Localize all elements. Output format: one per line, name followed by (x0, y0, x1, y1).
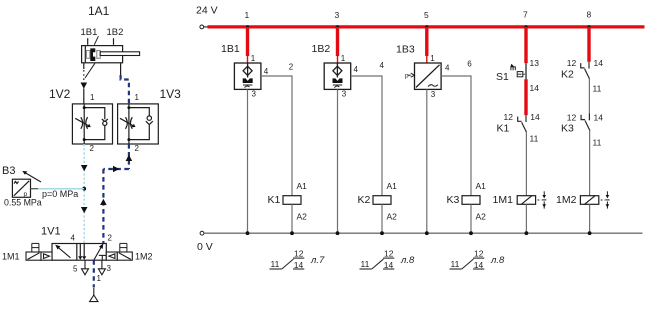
svg-text:14: 14 (384, 260, 394, 270)
red drop to 1B3 (425, 27, 428, 56)
svg-text:11: 11 (451, 259, 460, 269)
relay coil K1 (283, 196, 301, 205)
valve 1V1 body (52, 244, 106, 261)
svg-text:14: 14 (530, 112, 540, 122)
cross reference contact K2 (line 8) (360, 258, 395, 269)
cylinder 1A1 piston cushion pads (86, 51, 89, 59)
svg-text:л.8: л.8 (490, 255, 505, 266)
svg-text:3: 3 (335, 10, 340, 20)
svg-text:11: 11 (593, 84, 602, 94)
wire K3 coil to 0V (470, 204, 472, 233)
svg-text:3: 3 (252, 90, 257, 99)
sensor 1B1 box (234, 63, 261, 89)
flow arrow up near 1V3 (126, 155, 133, 161)
1B3 switch wave (428, 85, 438, 87)
pilot 1M1 box (41, 252, 52, 260)
svg-text:1M2: 1M2 (556, 194, 577, 206)
solenoid 1M1 box (26, 252, 41, 260)
svg-text:3: 3 (431, 90, 436, 99)
pressure switch 1B3 box (415, 63, 442, 89)
svg-text:3: 3 (342, 90, 347, 99)
1B1 reed symbol (243, 78, 253, 83)
svg-text:11: 11 (530, 134, 539, 144)
sensor tick 1B2 (113, 38, 115, 45)
relay coil K2 (373, 196, 391, 205)
red segment S1 to K1 contact (524, 79, 527, 115)
wire 1B2 pin4 to K2 coil (351, 76, 382, 196)
svg-text:1V1: 1V1 (41, 226, 61, 238)
1V2 junction dots (83, 106, 86, 109)
svg-text:л.8: л.8 (400, 255, 415, 266)
cross reference contact K3 (line 8) (450, 258, 485, 269)
svg-text:14: 14 (530, 83, 540, 93)
svg-text:1: 1 (97, 274, 102, 283)
svg-text:A2: A2 (476, 212, 487, 222)
sensor reference diagonal line (94, 36, 98, 45)
flow arrow down on cyan line (upper) (81, 165, 88, 171)
flow control valve 1V2 (72, 104, 112, 144)
svg-text:A1: A1 (387, 181, 398, 191)
1M1 link dashes (538, 199, 542, 201)
1V2 throttle arrowhead (87, 124, 91, 127)
flow control valve 1V3 (118, 104, 159, 144)
svg-text:л.7: л.7 (310, 255, 325, 266)
svg-text:1: 1 (251, 54, 256, 63)
svg-text:8: 8 (587, 10, 592, 20)
svg-text:12: 12 (567, 58, 577, 68)
column 8: red drop to K2 contact (587, 27, 590, 62)
svg-text:A1: A1 (297, 181, 308, 191)
svg-text:12: 12 (384, 249, 394, 259)
B3 adjustment arrow (25, 173, 41, 182)
svg-text:2: 2 (289, 63, 294, 72)
svg-text:p: p (405, 73, 409, 80)
svg-text:5: 5 (424, 10, 429, 20)
wire 1B3 pin4 to K3 coil (441, 76, 471, 196)
svg-text:4: 4 (380, 61, 385, 70)
svg-text:K1: K1 (268, 194, 281, 206)
wire K2 coil to 0V (381, 204, 383, 233)
sensor 1B2 box (324, 63, 351, 89)
svg-text:12: 12 (567, 113, 577, 123)
1V2 check valve (102, 119, 108, 126)
svg-text:4: 4 (71, 234, 76, 243)
svg-text:11: 11 (361, 259, 370, 269)
0V terminal (200, 231, 204, 235)
svg-text:4: 4 (354, 65, 359, 74)
svg-text:2: 2 (108, 234, 113, 243)
svg-text:4: 4 (445, 64, 450, 73)
1M1 valve solenoid indicator (542, 191, 546, 208)
wire K1 coil to 0V (291, 204, 293, 233)
svg-text:13: 13 (530, 58, 540, 68)
svg-text:K2: K2 (358, 194, 371, 206)
svg-text:14: 14 (594, 58, 604, 68)
svg-text:K3: K3 (447, 194, 460, 206)
24V terminal (200, 25, 204, 29)
svg-text:1B2: 1B2 (312, 43, 331, 55)
1V3 check valve (146, 116, 153, 125)
svg-text:1B1: 1B1 (221, 43, 240, 55)
1B2 reed symbol (333, 78, 343, 83)
wire K2 to K3 (588, 79, 590, 114)
wire 1M1 to 0V (525, 204, 527, 233)
exhaust port 5 (82, 260, 89, 275)
sensor tick 1B1 (87, 38, 89, 45)
svg-text:12: 12 (294, 249, 304, 259)
svg-text:24 V: 24 V (196, 5, 218, 17)
svg-text:14: 14 (474, 260, 484, 270)
junction node B3 tap (82, 187, 86, 191)
0V junction dots (246, 231, 250, 235)
blue pressure line 1V1 port 2 to 1V3 (103, 144, 128, 244)
1V1 blocked port 3 (99, 255, 106, 260)
svg-text:3: 3 (107, 264, 112, 273)
red drop to 1B1 (246, 27, 249, 56)
svg-text:1A1: 1A1 (88, 4, 110, 18)
wire K3 contact to 1M2 coil (589, 131, 591, 196)
svg-text:A2: A2 (297, 212, 308, 222)
svg-text:1M1: 1M1 (493, 194, 514, 206)
svg-text:K2: K2 (561, 69, 574, 81)
wire 1B1 pin3 to 0V (247, 89, 249, 233)
svg-text:1B1: 1B1 (81, 27, 98, 38)
svg-text:11: 11 (593, 138, 602, 148)
red drop to 1B2 (336, 27, 339, 56)
wire 1M2 to 0V (589, 204, 591, 233)
svg-text:4: 4 (264, 67, 269, 76)
svg-text:1: 1 (135, 93, 140, 102)
svg-text:A1: A1 (476, 181, 487, 191)
svg-text:0.55 MPa: 0.55 MPa (4, 198, 42, 208)
svg-text:B3: B3 (2, 165, 15, 177)
svg-text:11: 11 (271, 259, 280, 269)
cyan exhaust line 1V2 to 1V1 port 4 (83, 144, 85, 244)
svg-text:S1: S1 (496, 71, 509, 83)
svg-text:1: 1 (90, 93, 95, 102)
1V3 junction dots (127, 106, 130, 109)
relay coil K3 (462, 196, 480, 205)
wire 1B1 pin4 to K1 coil (261, 76, 292, 196)
svg-text:14: 14 (594, 113, 604, 123)
svg-text:A2: A2 (387, 212, 398, 222)
svg-text:2: 2 (90, 144, 95, 153)
wire K1 contact to 1M1 coil (525, 132, 527, 195)
svg-text:1V3: 1V3 (160, 87, 182, 101)
svg-text:K3: K3 (561, 123, 574, 135)
svg-text:1M1: 1M1 (2, 252, 20, 262)
svg-text:12: 12 (504, 112, 514, 122)
pipe cylinder to 1V3 (blue dashed pressurized) (120, 63, 122, 75)
svg-text:6: 6 (467, 60, 472, 69)
1V1 left square diagonal arrow (59, 248, 71, 258)
svg-text:K1: K1 (497, 123, 510, 135)
svg-text:1V2: 1V2 (49, 87, 71, 101)
flow arrow up on vertical segment (100, 199, 107, 205)
cross reference contact K1 (line 7) (270, 258, 305, 269)
flow arrow down on pipe (81, 83, 88, 89)
1M2 link dashes (601, 199, 605, 201)
1V1 right square diagonal arrow (94, 248, 101, 260)
svg-text:14: 14 (294, 260, 304, 270)
flow arrow right on horizontal segment (113, 166, 119, 173)
svg-text:7: 7 (523, 10, 528, 20)
svg-text:1: 1 (245, 10, 250, 20)
supply line port 1 (blue dashed) (93, 260, 95, 287)
cylinder 1A1 body (82, 46, 123, 63)
svg-text:1B3: 1B3 (396, 44, 415, 56)
24V supply rail (red) (208, 25, 645, 28)
svg-text:1B2: 1B2 (107, 27, 124, 38)
1V3 throttle arrowhead (131, 124, 135, 127)
pilot 1M2 box (106, 252, 117, 260)
exhaust port 3 (98, 260, 105, 275)
svg-text:12: 12 (474, 249, 484, 259)
wire 1B2 pin3 to 0V (337, 89, 339, 233)
svg-text:2: 2 (135, 144, 140, 153)
svg-text:1: 1 (430, 54, 435, 63)
column 7: red drop to S1 (524, 27, 527, 63)
cylinder 1A1 piston magnet (black) (90, 48, 95, 61)
1M1 detent symbol (32, 243, 39, 252)
flow arrow down on cyan line (lower) (81, 207, 88, 213)
pipe cylinder to 1V2 (flow, dotted with arrow) (83, 63, 85, 104)
switch S1 (closed, detent) (525, 63, 527, 79)
1M2 valve solenoid indicator (605, 191, 609, 208)
cylinder 1A1 piston rod (100, 52, 139, 56)
solenoid 1M2 box (117, 252, 132, 260)
svg-text:0 V: 0 V (197, 241, 213, 253)
B3 output line (cyan) (31, 188, 39, 190)
pressure sensor B3 body (12, 179, 30, 197)
compressed air source (90, 288, 98, 302)
0V rail (204, 232, 643, 234)
svg-text:p=0 MPa: p=0 MPa (42, 189, 78, 199)
1M2 detent symbol (120, 243, 127, 252)
wire 1B3 pin3 to 0V (426, 89, 428, 233)
svg-text:1M2: 1M2 (135, 252, 153, 262)
svg-text:5: 5 (73, 265, 78, 274)
svg-text:1: 1 (341, 54, 346, 63)
1V1 internal arrows (pass-through) (78, 256, 82, 260)
rail junction dots (246, 25, 249, 28)
